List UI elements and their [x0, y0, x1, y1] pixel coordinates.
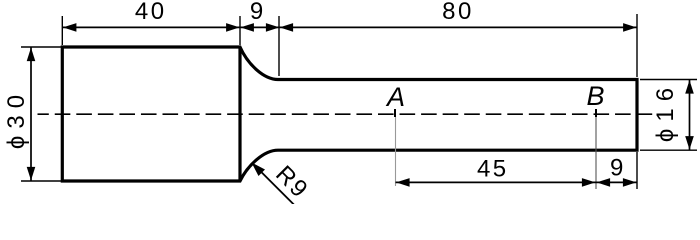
extension line right of 9 dim (x=279) — [278, 16, 280, 76]
dimension 40 line — [63, 26, 240, 28]
phi16 extension line bottom — [640, 149, 697, 151]
dimension 9 top left arrow — [240, 23, 254, 32]
svg-text:A: A — [385, 82, 405, 112]
svg-text:B: B — [586, 81, 604, 111]
phi30 bottom arrow — [27, 167, 36, 181]
svg-text:ϕ30: ϕ30 — [3, 88, 30, 149]
dimension 80 right arrow — [623, 23, 637, 32]
phi30 extension line bottom — [21, 180, 61, 182]
dimension 9 bottom right arrow — [623, 178, 637, 187]
dimension 40 left arrow — [63, 23, 77, 32]
right end extension line bottom (x=637) — [636, 152, 638, 189]
phi30 extension line top — [21, 46, 61, 48]
extension line right end (x=637) — [636, 14, 638, 77]
phi16 top arrow — [685, 80, 694, 94]
dimension 9 bottom left arrow — [597, 178, 611, 187]
phi30 dimension line — [30, 47, 32, 181]
svg-text:9: 9 — [610, 155, 626, 182]
phi16 bottom arrow — [685, 136, 694, 150]
node A leader line (gray) — [395, 117, 397, 186]
dimension 45 right arrow — [582, 178, 596, 187]
node B tick on centerline — [595, 109, 597, 117]
shoulder face line — [238, 47, 241, 181]
extension line at shoulder (x=240) — [239, 16, 241, 45]
centerline — [38, 113, 655, 115]
dimension 80 line — [279, 26, 637, 28]
svg-text:ϕ16: ϕ16 — [652, 81, 679, 142]
svg-text:40: 40 — [135, 0, 167, 25]
dimension 9 top line — [240, 26, 279, 28]
phi16 dimension line — [689, 80, 691, 151]
dimension 45 left arrow — [396, 178, 410, 187]
phi16 extension line top — [640, 79, 697, 81]
svg-text:80: 80 — [442, 0, 474, 25]
shaft outline (stepped shaft body) — [62, 47, 637, 181]
dimension 40 right arrow — [226, 23, 240, 32]
svg-text:9: 9 — [250, 0, 266, 25]
node B extension line — [595, 117, 597, 189]
phi30 top arrow — [27, 48, 36, 62]
dimension 9 top right arrow — [266, 23, 280, 32]
extension line left of 40 dim — [61, 16, 63, 45]
dimension 80 left arrow — [280, 23, 294, 32]
R9 leader line — [258, 169, 294, 205]
dimension 9 bottom line — [596, 181, 637, 183]
R9 leader arrow — [252, 163, 266, 177]
svg-text:45: 45 — [477, 155, 509, 182]
dimension 45 line — [396, 181, 597, 183]
node A tick on centerline — [394, 109, 396, 117]
